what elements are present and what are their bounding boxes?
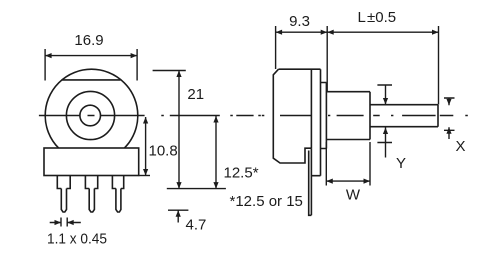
bushing [326,92,370,140]
svg-text:*12.5 or 15: *12.5 or 15 [230,193,303,210]
shaft [370,105,438,127]
flange [321,83,327,149]
dimension 9.3 [276,26,328,91]
dimension 4.7 [168,210,188,222]
svg-text:9.3: 9.3 [289,13,310,30]
svg-text:4.7: 4.7 [186,217,207,234]
dimension L ±0.5 [327,26,438,105]
svg-text:21: 21 [187,86,204,103]
svg-text:16.9: 16.9 [74,32,103,49]
base block (front view), white fill hides circle bottom [44,148,139,176]
pin 2 [89,189,94,213]
center line (dash-dot axis through both views) [39,115,468,117]
svg-text:Y: Y [396,155,406,172]
svg-text:1.1 x 0.45: 1.1 x 0.45 [47,231,107,248]
pin 3 [116,189,121,213]
dimension 16.9 [45,49,137,81]
pin 1 [61,189,66,213]
middle circle [66,91,114,139]
dimension 1.1 x 0.45 (pin cross-section) [50,218,81,227]
dimension 12.5* [167,116,226,189]
svg-text:L: L [358,9,366,26]
svg-text:±0.5: ±0.5 [367,9,396,26]
plate / bracket front edge [311,69,320,176]
pin shoulders (front view) [57,176,70,189]
dimension W [326,142,370,186]
flat chord on cover [62,79,121,81]
side view body [273,69,320,163]
potentiometer body outer circle (front view) [45,69,138,162]
inner circle (shaft end) [80,105,101,126]
terminal pin (side view) [309,148,312,215]
svg-text:X: X [456,138,466,155]
dimension Y arrows [377,85,392,158]
dimension 10.8 [139,117,150,176]
svg-text:12.5*: 12.5* [224,165,259,182]
svg-text:10.8: 10.8 [149,143,178,160]
svg-text:W: W [346,187,361,204]
dimension 21 [153,71,186,189]
dimension X arrows [444,98,455,139]
